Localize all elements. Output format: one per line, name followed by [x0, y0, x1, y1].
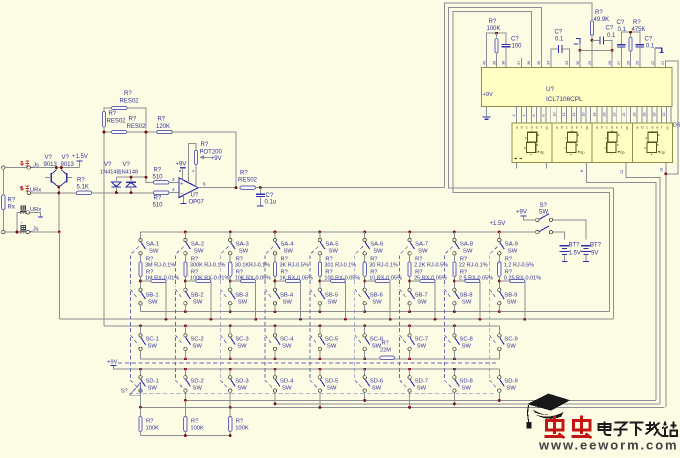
switch SD-6 SW: [364, 369, 366, 375]
svg-text:SC-8: SC-8: [459, 337, 473, 343]
wire transistor emitters down: [58, 186, 60, 232]
svg-text:R?: R?: [201, 142, 209, 148]
wire diode top rail: [116, 177, 153, 182]
svg-text:27: 27: [617, 61, 621, 65]
svg-text:dp: dp: [620, 150, 625, 155]
display DS? digit 4: [632, 123, 672, 162]
svg-text:26: 26: [633, 113, 637, 117]
svg-text:SW: SW: [327, 386, 337, 392]
resistor R? 301 RJ-0.1%: [319, 255, 321, 262]
svg-text:R?: R?: [240, 171, 248, 177]
switch SB-6 SW: [363, 288, 366, 291]
link dashes column: [489, 247, 497, 388]
wire SD-2 to bus: [184, 392, 186, 400]
svg-text:SC-5: SC-5: [325, 337, 339, 343]
svg-text:SB-7: SB-7: [415, 292, 428, 298]
switch SB-4 SW: [273, 288, 276, 291]
svg-text:+: +: [180, 181, 183, 187]
svg-text:SW: SW: [372, 299, 382, 305]
switch SC-2 SW: [184, 326, 186, 334]
svg-text:25: 25: [636, 61, 640, 65]
link dashes column: [444, 247, 452, 388]
svg-text:1N4148: 1N4148: [100, 170, 120, 176]
svg-text:100K: 100K: [146, 425, 160, 431]
wire +1.5V rail / SA bus: [141, 231, 536, 233]
svg-text:SW: SW: [193, 299, 203, 305]
svg-text:g: g: [626, 125, 628, 130]
svg-text:V?: V?: [45, 155, 53, 161]
display DS? digit 2: [552, 123, 592, 162]
svg-text:ICL7106CPL: ICL7106CPL: [546, 96, 583, 103]
wire SB common bus: [141, 311, 610, 313]
switch SD-2 SW: [184, 369, 186, 375]
svg-text:POT200: POT200: [200, 149, 223, 155]
wire RX bus: [59, 318, 613, 320]
terminal 红_URx: [27, 191, 30, 194]
svg-text:0.1: 0.1: [555, 36, 564, 42]
svg-text:dp: dp: [540, 150, 545, 155]
svg-text:SC-7: SC-7: [415, 337, 428, 343]
svg-text:OP07: OP07: [189, 200, 205, 206]
wire SD-5 to bus: [319, 392, 321, 407]
svg-text:C?: C?: [617, 20, 625, 26]
svg-text:+9V: +9V: [211, 156, 222, 162]
svg-text:SA-3: SA-3: [236, 241, 250, 247]
terminal J1 left top: [2, 166, 5, 169]
svg-text:dp: dp: [580, 150, 585, 155]
switch SC-7 SW: [409, 326, 411, 334]
svg-text:SW: SW: [373, 248, 383, 254]
svg-text:3: 3: [172, 177, 175, 182]
link dashes column: [310, 247, 318, 388]
svg-text:SW: SW: [506, 386, 516, 392]
switch SD-5 SW: [319, 369, 321, 375]
svg-text:8: 8: [580, 170, 584, 172]
stub 黑_URx right with bar: [30, 212, 41, 216]
link dashes column: [400, 247, 408, 388]
capacitor C? 100 (osc): [502, 45, 511, 47]
svg-text:0.1: 0.1: [607, 33, 616, 39]
capacitor C? 0.1u: [259, 188, 261, 194]
terminal 红_Js: [27, 166, 30, 169]
link dashes column: [175, 247, 183, 388]
switch SA-7 SW: [409, 232, 411, 238]
svg-text:BT?: BT?: [590, 242, 602, 248]
wire output loop to IC IN (rect1): [445, 3, 593, 188]
svg-text:20: 20: [602, 113, 606, 117]
svg-text:R?: R?: [154, 196, 162, 202]
svg-text:37: 37: [517, 61, 521, 65]
wire display2 backplane to right bus: [586, 162, 656, 400]
svg-text:SC-1: SC-1: [146, 337, 159, 343]
svg-text:+9V: +9V: [483, 92, 494, 98]
svg-text:SD-7: SD-7: [415, 379, 428, 385]
svg-text:SD-6: SD-6: [370, 379, 384, 385]
svg-text:SW: SW: [417, 344, 427, 350]
svg-text:R?: R?: [489, 19, 497, 25]
svg-text:SD-4: SD-4: [280, 379, 294, 385]
svg-text:30: 30: [576, 61, 580, 65]
hook pin 30: [576, 39, 580, 45]
svg-text:SW: SW: [194, 248, 204, 254]
svg-text:SD-8: SD-8: [459, 379, 473, 385]
svg-text:100K: 100K: [190, 425, 204, 431]
resistor R? 2.2K RJ-0.5%: [409, 255, 411, 262]
svg-text:3K RJ-0.5%: 3K RJ-0.5%: [280, 263, 309, 269]
ground op-amp pin4: [183, 196, 185, 204]
switch SC-5 SW: [319, 326, 321, 334]
svg-text:SW: SW: [149, 248, 159, 254]
resistor R? Rx: [2, 169, 4, 194]
resistor R? 22 RJ-0.1%: [453, 255, 455, 262]
wire 黑_URx left branch: [17, 212, 26, 232]
resistor R? 300K RJ-0.1%: [184, 255, 186, 262]
resistor R? 30 RJ-0.1%: [364, 255, 366, 262]
wire digit bus 1: [185, 399, 656, 401]
svg-text:C?: C?: [555, 30, 563, 36]
svg-text:18: 18: [593, 113, 597, 117]
svg-text:SD-1: SD-1: [146, 379, 159, 385]
svg-text:R?: R?: [154, 167, 162, 173]
svg-text:R?: R?: [109, 111, 117, 117]
svg-text:2.2K RJ-0.5%: 2.2K RJ-0.5%: [414, 263, 448, 269]
svg-text:Rx: Rx: [8, 205, 15, 211]
svg-text:d: d: [611, 125, 613, 130]
switch SA-5 SW: [319, 232, 321, 238]
svg-text:SW: SW: [237, 386, 247, 392]
svg-text:SB-1: SB-1: [146, 292, 159, 298]
svg-text:40: 40: [482, 61, 486, 65]
switch SA-6 SW: [364, 232, 366, 238]
svg-text:SC-6: SC-6: [370, 337, 384, 343]
svg-text:S?: S?: [121, 389, 128, 395]
svg-text:SW: SW: [327, 299, 337, 305]
wire display4 pin16 down right edge: [665, 162, 667, 407]
svg-text:9V: 9V: [591, 250, 598, 256]
link dashes column: [220, 247, 228, 388]
svg-text:SW: SW: [463, 248, 473, 254]
svg-text:39: 39: [492, 61, 496, 65]
terminal J2 left bottom: [2, 230, 5, 233]
svg-text:g: g: [666, 125, 668, 130]
logo 虫虫: [545, 416, 565, 439]
display DS? digit 1: [512, 123, 552, 162]
svg-text:SW: SW: [284, 248, 294, 254]
svg-text:SD-9: SD-9: [504, 379, 517, 385]
svg-text:32: 32: [662, 113, 666, 117]
svg-text:DS: DS: [673, 123, 680, 129]
link dashes column: [355, 247, 363, 388]
ground IC pin (left): [486, 107, 488, 117]
resistor R? 100K (col 2): [184, 400, 186, 416]
svg-text:22 RJ-0.1%: 22 RJ-0.1%: [459, 263, 488, 269]
svg-text:SC-9: SC-9: [504, 337, 517, 343]
switch SC-8 SW: [453, 326, 455, 334]
logo graduation cap: [527, 394, 571, 429]
svg-text:1.2 RJ-0.5%: 1.2 RJ-0.5%: [504, 263, 534, 269]
svg-text:R?: R?: [124, 91, 132, 97]
svg-text:510: 510: [153, 203, 164, 209]
switch SC-3 SW: [229, 326, 231, 334]
svg-text:SW: SW: [417, 299, 427, 305]
svg-text:SB-6: SB-6: [370, 292, 384, 298]
svg-text:SW: SW: [192, 344, 202, 350]
svg-text:SW: SW: [328, 248, 338, 254]
svg-text:d: d: [571, 125, 573, 130]
svg-text:6: 6: [203, 182, 206, 187]
svg-text:SA-7: SA-7: [415, 241, 428, 247]
wire SD-9 to bus: [498, 392, 500, 400]
switch SA-3 SW: [229, 232, 231, 238]
svg-text:5.1K: 5.1K: [77, 185, 89, 191]
svg-text:29: 29: [588, 61, 592, 65]
svg-text:RES02: RES02: [127, 124, 147, 130]
svg-text:28: 28: [643, 113, 647, 117]
svg-text:SW: SW: [461, 386, 471, 392]
wire pin30 to cap node: [580, 49, 612, 51]
wire 100K common: [141, 435, 231, 437]
link dashes column: [265, 247, 273, 388]
svg-text:SW: SW: [148, 344, 158, 350]
svg-text:22: 22: [651, 61, 655, 65]
wire feeder to RX bus: [58, 232, 60, 319]
resistor R? 510 (pin2): [153, 191, 169, 194]
wire SD-6 to bus: [364, 392, 366, 400]
wire SC feed bus: [104, 325, 499, 327]
svg-text:SW: SW: [148, 386, 158, 392]
pin stub 37: [520, 58, 522, 68]
display1 +/- marks: [515, 157, 522, 159]
wire SD-3 to bus: [229, 392, 231, 407]
node 红_Js row wire: [5, 167, 80, 169]
wire transistor tops to rail: [56, 168, 61, 170]
svg-text:SC-2: SC-2: [190, 337, 203, 343]
resistor R? 3K RJ-0.5%: [274, 255, 276, 262]
svg-text:SA-2: SA-2: [191, 241, 204, 247]
svg-text:SW: SW: [506, 344, 516, 350]
svg-text:SW: SW: [461, 344, 471, 350]
svg-text:V?: V?: [123, 162, 131, 168]
wire display3 pin12 to right bus: [626, 162, 660, 403]
resistor R? 5.1K: [76, 191, 92, 194]
svg-text:SB-4: SB-4: [280, 292, 294, 298]
svg-text:30: 30: [653, 113, 657, 117]
wire pin21 to backplane: [665, 61, 678, 174]
svg-text:SW: SW: [507, 299, 517, 305]
resistor R? 1.2 RJ-0.5%: [498, 255, 500, 262]
resistor R? 3M RJ-0.1%: [140, 255, 142, 262]
switch SA-9 SW: [498, 232, 500, 238]
hook pin 22: [655, 48, 662, 53]
svg-text:SW: SW: [283, 299, 293, 305]
svg-text:22: 22: [612, 113, 616, 117]
svg-text:SW: SW: [417, 386, 427, 392]
link dashes column: [131, 247, 139, 388]
svg-text:RES02: RES02: [238, 177, 258, 183]
svg-text:3M RJ-0.1%: 3M RJ-0.1%: [145, 263, 175, 269]
svg-text:U?: U?: [546, 86, 555, 93]
svg-text:SW: SW: [418, 248, 428, 254]
svg-text:10: 10: [552, 113, 556, 117]
wire rect2 to RX bus vertical: [449, 7, 614, 318]
svg-text:dp: dp: [661, 150, 666, 155]
switch SD-9 SW: [498, 369, 500, 375]
svg-text:SB-9: SB-9: [504, 292, 517, 298]
svg-text:SW: SW: [238, 299, 248, 305]
svg-text:SB-5: SB-5: [325, 292, 339, 298]
svg-text:+9V: +9V: [107, 360, 118, 366]
svg-text:+9V: +9V: [516, 210, 527, 216]
svg-text:475K: 475K: [632, 27, 646, 33]
switch SB-2 SW: [184, 288, 187, 291]
svg-text:SA-8: SA-8: [460, 241, 474, 247]
svg-text:510: 510: [153, 174, 164, 180]
svg-text:d: d: [531, 125, 533, 130]
svg-text:RES02: RES02: [107, 119, 127, 125]
svg-text:100K: 100K: [235, 425, 249, 431]
svg-text:R?: R?: [77, 178, 85, 184]
wire op-amp output: [198, 187, 236, 189]
svg-text:SW: SW: [372, 344, 382, 350]
svg-text:21: 21: [661, 61, 665, 65]
svg-text:SC-4: SC-4: [280, 337, 294, 343]
switch SD-3 SW: [229, 369, 231, 375]
resistor R? RES02 (vertical): [102, 112, 105, 128]
svg-text:SA-6: SA-6: [370, 241, 384, 247]
svg-text:SB-3: SB-3: [235, 292, 249, 298]
svg-text:R?: R?: [236, 418, 244, 424]
svg-text:SW: SW: [148, 299, 158, 305]
svg-text:100K: 100K: [487, 26, 501, 32]
svg-text:SC-3: SC-3: [235, 337, 249, 343]
power +1.5V (left): [79, 161, 81, 168]
svg-text:120K: 120K: [156, 124, 170, 130]
resistor R? 22M: [380, 356, 395, 359]
svg-text:www.eeworm.com: www.eeworm.com: [538, 438, 679, 453]
svg-text:16: 16: [660, 168, 664, 172]
svg-text:SW: SW: [239, 248, 249, 254]
svg-text:+1.5V: +1.5V: [72, 154, 88, 160]
svg-text:c: c: [646, 125, 648, 130]
svg-text:SA-1: SA-1: [146, 241, 159, 247]
svg-text:SW: SW: [508, 248, 518, 254]
svg-text:33: 33: [565, 61, 569, 65]
svg-text:2: 2: [512, 115, 516, 117]
svg-text:SA-9: SA-9: [505, 241, 518, 247]
svg-text:1N4148: 1N4148: [119, 170, 139, 176]
svg-text:S?: S?: [540, 203, 548, 209]
svg-text:BT?: BT?: [569, 242, 581, 248]
svg-text:SA-4: SA-4: [281, 241, 295, 247]
label 黑_URx: [20, 206, 27, 214]
svg-text:R?: R?: [633, 20, 641, 26]
switch SC-6 SW: [364, 326, 366, 334]
svg-text:U?: U?: [191, 193, 199, 199]
display DS? digit 3: [592, 123, 632, 162]
svg-text:R?: R?: [158, 116, 166, 122]
switch SC-4 SW: [274, 326, 276, 334]
op-amp U? OP07: [179, 178, 198, 198]
mechanical link dashed bus: [118, 362, 498, 364]
wire 120K to output node: [172, 132, 236, 186]
svg-text:1.5V: 1.5V: [569, 250, 581, 256]
switch SD-4 SW: [274, 369, 276, 375]
switch SD-7 SW: [409, 369, 411, 375]
resistor R? 100K (col 1): [140, 407, 142, 416]
svg-text:C?: C?: [606, 26, 614, 32]
terminal 黑_URx: [26, 211, 29, 214]
svg-text:R?: R?: [595, 10, 603, 16]
svg-text:SW: SW: [372, 386, 382, 392]
svg-text:SW: SW: [327, 344, 337, 350]
switch SB-5 SW: [318, 288, 321, 291]
svg-text:g: g: [586, 125, 588, 130]
capacitor C? 0.1 (ref hi): [635, 45, 644, 47]
wire digit bus 3: [141, 406, 665, 408]
svg-text:36: 36: [527, 61, 531, 65]
switch SD-8 SW: [453, 369, 455, 375]
switch SB-3 SW: [229, 288, 232, 291]
svg-text:34: 34: [547, 61, 551, 65]
switch SC-1 SW: [140, 326, 142, 334]
svg-text:SW: SW: [192, 386, 202, 392]
wire SD-1 to bus: [140, 392, 142, 407]
wire SC bottom bus with 22M: [141, 358, 500, 360]
switch SA-2 SW: [184, 232, 186, 238]
svg-text:24: 24: [622, 113, 626, 117]
terminal 黑_Js: [26, 230, 29, 233]
svg-text:c: c: [526, 125, 528, 130]
wire rect3 to SB bus vertical: [453, 12, 610, 312]
svg-text:SW: SW: [282, 386, 292, 392]
svg-text:4: 4: [522, 115, 526, 117]
svg-text:+9V: +9V: [176, 162, 187, 168]
wire SD-8 to bus: [453, 392, 455, 404]
label 红_Js: [20, 161, 29, 166]
svg-text:0.1: 0.1: [646, 43, 655, 49]
IC U? ICL7106CPL: [482, 68, 672, 107]
IC bottom pin comb: [517, 107, 671, 123]
resistor R? 100K (col 3): [229, 407, 231, 416]
wire URx row: [31, 192, 180, 194]
svg-text:2: 2: [172, 187, 175, 192]
svg-text:30 RJ-0.1%: 30 RJ-0.1%: [369, 263, 398, 269]
node 黑_Js row: [20, 225, 27, 233]
logo 电子下载站: [599, 422, 678, 437]
wire feeder x146 to diode node: [145, 134, 147, 178]
svg-text:V?: V?: [104, 162, 112, 168]
svg-text:SB-8: SB-8: [459, 292, 473, 298]
switch SC-9 SW: [498, 326, 500, 334]
svg-text:SW: SW: [282, 344, 292, 350]
switch SB-7 SW: [408, 288, 411, 291]
switch SA-4 SW: [274, 232, 276, 238]
switch SB-9 SW: [498, 288, 501, 291]
wire SD-7 to bus: [409, 392, 411, 407]
wire SD-4 to bus: [274, 392, 276, 404]
svg-text:SD-2: SD-2: [190, 379, 203, 385]
switch S? SW (lower pole): [536, 230, 539, 233]
switch SB-8 SW: [453, 288, 456, 291]
switch SB-1 SW: [139, 288, 142, 291]
svg-text:16: 16: [582, 113, 586, 117]
svg-text:V?: V?: [62, 155, 70, 161]
stub display1 pins: [517, 162, 547, 168]
svg-text:C?: C?: [511, 37, 519, 43]
svg-text:c: c: [566, 125, 568, 130]
svg-text:14: 14: [572, 113, 576, 117]
svg-text:c: c: [606, 125, 608, 130]
